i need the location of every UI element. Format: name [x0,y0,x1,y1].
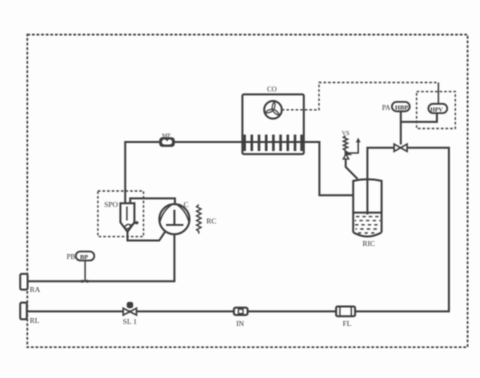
svg-text:SPO: SPO [104,200,118,209]
svg-text:BP: BP [80,254,88,261]
valve (liquid line) [394,144,407,151]
svg-text:PB: PB [67,253,76,261]
control line (dashed) from fan to fan pressostat [282,83,439,110]
wire: liquid line to RL port [28,148,449,312]
enclosure dashed border [27,35,467,348]
wire: HPV pressostat to PA line [401,113,437,122]
wire: PA pressostat to liquid valve [400,111,402,144]
pressure switch PB (BP) [67,252,95,283]
svg-text:CO: CO [267,86,277,94]
wire: MF to condenser and condenser outlet to receiver [174,142,353,195]
svg-text:RIC: RIC [363,239,376,248]
svg-text:C: C [184,200,189,209]
pressure switch PA (HP) [382,102,410,112]
oil separator SPO [98,191,144,237]
wire: discharge riser SPO to muffler line [125,142,160,203]
wire: suction line RA to compressor [28,234,175,281]
svg-text:RC: RC [206,217,216,226]
wire: compressor discharge to SPO [130,198,175,204]
crankcase heater RC [197,205,217,234]
svg-text:HPV: HPV [430,108,443,114]
svg-text:MF: MF [162,133,171,139]
svg-text:SL 1: SL 1 [123,317,137,326]
muffler MF [160,133,174,146]
svg-text:IN: IN [236,319,244,328]
sight glass IN [234,308,248,328]
safety valve VS [342,131,361,159]
pressure switch HPV (fan pressostat) [428,104,447,114]
svg-text:FL: FL [343,319,352,328]
port RL [20,303,40,325]
condenser fan [264,101,282,119]
svg-text:RA: RA [30,285,41,294]
wire: oil return SPO to compressor [128,232,166,241]
solenoid valve SL 1 [123,303,137,326]
filter drier FL [336,307,355,329]
receiver RIC [353,179,381,248]
svg-text:HBP: HBP [395,105,408,112]
svg-text:PA: PA [382,104,390,112]
svg-text:RL: RL [30,316,40,325]
dashed box around fan pressostat [417,92,456,129]
wire: receiver dip tube to liquid valve [367,148,394,215]
compressor C [159,200,189,234]
port RA [20,274,41,294]
condenser CO [242,86,303,155]
wire: VS to receiver top [346,159,358,179]
